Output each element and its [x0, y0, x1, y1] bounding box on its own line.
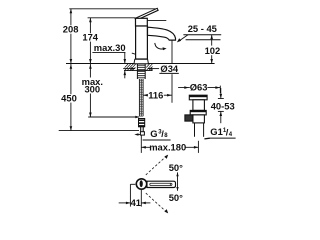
- small dash near body base: [132, 53, 137, 55]
- svg-text:max.30: max.30: [94, 42, 126, 53]
- dimension line 208: [70, 9, 73, 64]
- svg-text:102: 102: [205, 45, 221, 56]
- pop-up waste neck: [193, 100, 205, 111]
- deck top line left: [66, 63, 134, 65]
- Ø34 dimension arrows: [123, 67, 159, 70]
- top view: body circle: [136, 179, 146, 189]
- max.300 bottom reference line: [88, 116, 140, 119]
- shank below deck (threaded): [137, 64, 145, 80]
- tailpipe: [195, 123, 204, 137]
- svg-text:50°: 50°: [169, 162, 183, 173]
- svg-text:G1: G1: [210, 126, 223, 137]
- hose connector nut: [134, 119, 144, 136]
- spout: [148, 27, 176, 40]
- label 174: [82, 32, 98, 43]
- dimension line 450: [70, 64, 73, 131]
- faucet lever handle: [135, 8, 158, 20]
- extension line 174 level: [88, 17, 136, 19]
- svg-text:G: G: [150, 128, 157, 139]
- supply hose: [139, 79, 143, 116]
- Ø63 dimension: [178, 81, 220, 93]
- pop-up waste flange: [189, 95, 207, 100]
- svg-text:40-53: 40-53: [211, 100, 235, 111]
- svg-text:116: 116: [148, 90, 163, 101]
- extension line top (208 level): [69, 8, 158, 10]
- faucet base flare: [134, 59, 148, 64]
- pop-up waste lower body: [193, 115, 205, 123]
- dimension 116: [143, 90, 171, 101]
- upper 50 deg dashed line: [146, 155, 168, 175]
- 450 bottom reference line: [59, 130, 139, 132]
- outlet extension rod down: [171, 40, 173, 103]
- label G 3/8: [143, 128, 171, 140]
- label 208: [63, 24, 79, 35]
- label 450: [61, 93, 77, 104]
- extension line right of cap: [147, 20, 166, 22]
- pop-up waste collar: [190, 110, 206, 115]
- svg-text:50°: 50°: [169, 192, 183, 203]
- svg-text:max.180: max.180: [149, 142, 186, 153]
- aerator lower line: [186, 39, 221, 41]
- svg-text:300: 300: [84, 84, 100, 95]
- svg-text:174: 174: [82, 32, 98, 43]
- dimension 41: [119, 184, 151, 208]
- faucet cap (cartridge housing): [136, 18, 148, 26]
- dimension 102: [204, 35, 221, 64]
- svg-text:Ø63: Ø63: [190, 81, 208, 92]
- svg-text:41: 41: [131, 197, 141, 208]
- label 25-45 with underline: [183, 23, 221, 35]
- dimension line 174: [89, 18, 92, 64]
- deck hatch right: [146, 64, 152, 71]
- svg-text:25 - 45: 25 - 45: [188, 23, 217, 34]
- deck top line right: [148, 63, 214, 65]
- lower 50 deg dashed line: [146, 193, 168, 213]
- deck bottom line: [124, 70, 153, 72]
- deck hatch left: [125, 63, 136, 70]
- dimension 40-53: [211, 88, 235, 123]
- top view: cartridge slot: [140, 180, 143, 187]
- water flow arrow: [155, 43, 167, 50]
- top view: swivel chord with arrows: [176, 172, 178, 190]
- label max.300: [81, 76, 104, 95]
- svg-text:208: 208: [63, 24, 79, 35]
- leader to outlet: [177, 35, 188, 43]
- svg-text:450: 450: [61, 93, 77, 104]
- svg-text:Ø34: Ø34: [160, 63, 179, 74]
- pop-up waste lever knob: [185, 115, 193, 121]
- label G1 1/4: [204, 126, 235, 139]
- faucet body: [136, 26, 148, 59]
- label Ø34 with underline: [159, 63, 179, 74]
- dimension line max.300: [89, 64, 92, 118]
- top view: handle bar: [147, 181, 176, 187]
- dimension max.180: [141, 135, 198, 153]
- top view: handle inner slot: [150, 183, 172, 185]
- label max.30 with underline and arrows: [92, 42, 126, 78]
